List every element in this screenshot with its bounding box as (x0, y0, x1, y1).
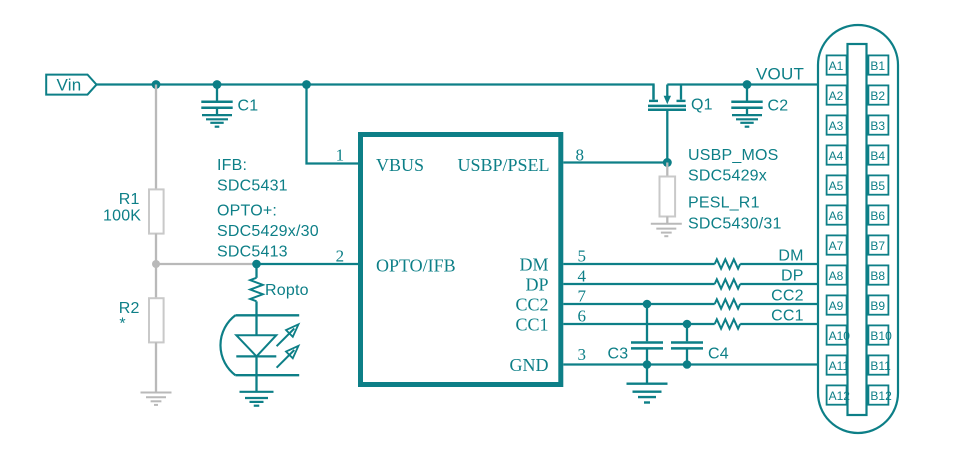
svg-text:B1: B1 (870, 59, 885, 73)
svg-text:5: 5 (578, 246, 587, 265)
svg-text:C3: C3 (608, 346, 629, 363)
svg-text:DP: DP (525, 275, 548, 295)
svg-text:USBP/PSEL: USBP/PSEL (457, 155, 549, 175)
svg-text:A1: A1 (829, 59, 844, 73)
svg-text:Vin: Vin (57, 76, 82, 95)
wire: Q1 drain to USB connector (top rail right, VOUT) (667, 83, 818, 85)
ground (below opto LED) (240, 392, 274, 406)
svg-text:USBP_MOS: USBP_MOS (688, 147, 779, 164)
svg-text:CC1: CC1 (515, 315, 548, 335)
connector pin A10 (827, 325, 851, 344)
wire: VBUS branch to pin 1 (307, 85, 359, 164)
svg-text:B3: B3 (870, 119, 885, 133)
svg-text:B12: B12 (870, 389, 892, 403)
connector pin B2 (868, 85, 888, 104)
svg-text:2: 2 (336, 247, 345, 266)
resistor in CC2 line (715, 299, 740, 308)
svg-text:B11: B11 (870, 359, 891, 373)
svg-text:DM: DM (778, 248, 803, 265)
svg-text:A11: A11 (829, 359, 850, 373)
svg-text:A12: A12 (829, 389, 851, 403)
node: junction top of C1 (213, 80, 222, 89)
connector pin A12 (827, 385, 851, 404)
svg-text:7: 7 (578, 286, 587, 305)
svg-text:CC1: CC1 (771, 308, 804, 325)
connector pin B9 (868, 295, 888, 314)
svg-text:B6: B6 (870, 209, 885, 223)
connector pin A8 (827, 265, 847, 284)
connector pin A5 (827, 175, 847, 194)
svg-text:CC2: CC2 (515, 295, 548, 315)
connector pin A6 (827, 205, 847, 224)
svg-text:A2: A2 (829, 89, 844, 103)
wire: pin 8 USBP/PSEL (563, 161, 667, 163)
connector pin B4 (868, 145, 888, 164)
connector pin B7 (868, 235, 888, 254)
connector pin B6 (868, 205, 888, 224)
wire: CC1 to connector (740, 323, 818, 325)
svg-text:8: 8 (576, 146, 585, 165)
ground (below R2, gray) (141, 393, 172, 405)
label PESL_R1 / SDC5430/31 (688, 195, 782, 233)
wire: CC1 from IC (563, 323, 714, 325)
svg-text:A7: A7 (829, 239, 844, 253)
svg-text:B4: B4 (870, 149, 885, 163)
svg-text:B10: B10 (870, 329, 892, 343)
connector J1 USB-C receptacle outline (818, 25, 898, 433)
svg-text:A9: A9 (829, 299, 844, 313)
label R2 / * (119, 300, 140, 333)
svg-text:C2: C2 (768, 98, 789, 115)
svg-text:B7: B7 (870, 239, 885, 253)
connector pin A4 (827, 145, 847, 164)
svg-text:A8: A8 (829, 269, 844, 283)
connector pin B12 (868, 385, 892, 404)
connector pin A9 (827, 295, 847, 314)
svg-text:C1: C1 (238, 98, 259, 115)
wire: C3 junction to ground (646, 365, 648, 384)
connector pin B8 (868, 265, 888, 284)
connector pin B5 (868, 175, 888, 194)
ground (below C3) (627, 384, 668, 403)
capacitor C2 with ground (731, 85, 762, 127)
wire: R2 to ground (gray) (155, 342, 157, 392)
svg-text:B5: B5 (870, 179, 885, 193)
svg-text:OPTO+:: OPTO+: (217, 203, 277, 220)
svg-text:OPTO/IFB: OPTO/IFB (376, 255, 456, 275)
resistor R1 (149, 189, 164, 233)
opto LED D1 (220, 315, 299, 392)
connector pin B11 (868, 355, 891, 374)
wire: DP to connector (740, 283, 818, 285)
svg-text:SDC5430/31: SDC5430/31 (688, 216, 782, 233)
connector pin A2 (827, 85, 847, 104)
svg-text:A4: A4 (829, 149, 844, 163)
light emission arrows (277, 329, 295, 347)
node: junction pin2 / Ropto (252, 260, 261, 269)
ground (PESL_R1, gray) (651, 224, 682, 236)
node: junction VOUT / C2 (743, 80, 752, 89)
connector pin B3 (868, 115, 888, 134)
resistor in CC1 line (715, 319, 740, 328)
connector pin B1 (868, 55, 888, 74)
node: junction CC1 / C4 (683, 320, 692, 329)
resistor PESL_R1 (660, 177, 676, 217)
svg-text:1: 1 (336, 146, 345, 165)
wire: lead to resistor PESL_R1 (666, 163, 668, 177)
connector pin A7 (827, 235, 847, 254)
svg-text:R2: R2 (119, 300, 140, 317)
node: junction gate / PESL_R1 (663, 158, 672, 167)
svg-text:A6: A6 (829, 209, 844, 223)
wire: divider junction to opto branch (gray) (156, 263, 257, 265)
wire: R1 to junction (gray) (155, 234, 157, 264)
wire: rail to R1 (gray) (155, 85, 157, 190)
capacitor C3 (631, 304, 663, 365)
connector tongue (848, 44, 867, 415)
node: junction CC2 / C3 (643, 300, 652, 309)
svg-text:SDC5431: SDC5431 (217, 178, 288, 195)
connector pin B10 (868, 325, 892, 344)
wire: junction to pin 2 OPTO/IFB (257, 263, 359, 265)
svg-text:3: 3 (578, 345, 587, 364)
connector pin A11 (827, 355, 850, 374)
svg-text:4: 4 (578, 266, 587, 285)
svg-text:6: 6 (578, 306, 587, 325)
connector pin A3 (827, 115, 847, 134)
node: junction VBUS branch (302, 80, 311, 89)
node: junction C4 / GND line (683, 360, 692, 369)
op-amp / controller IC U1 (361, 135, 561, 385)
svg-text:B9: B9 (870, 299, 885, 313)
wire: DM from IC (563, 263, 714, 265)
svg-text:DP: DP (781, 268, 804, 285)
svg-text:SDC5413: SDC5413 (217, 244, 288, 261)
node: junction top of R1 (152, 80, 161, 89)
svg-text:SDC5429x/30: SDC5429x/30 (217, 223, 319, 240)
svg-text:SDC5429x: SDC5429x (688, 168, 767, 185)
wire: Vin to Q1 source (top rail left) (97, 85, 654, 100)
net label Vin (46, 75, 96, 95)
svg-text:IFB:: IFB: (217, 157, 247, 174)
svg-text:B8: B8 (870, 269, 885, 283)
svg-text:Ropto: Ropto (265, 282, 309, 299)
svg-text:CC2: CC2 (771, 288, 804, 305)
svg-text:GND: GND (510, 355, 549, 375)
svg-text:B2: B2 (870, 89, 885, 103)
resistor Ropto (zigzag) (250, 264, 263, 315)
label R1 / 100K (103, 191, 141, 225)
resistor R2 (149, 298, 164, 342)
wire: GND pin 3 to connector (563, 363, 818, 365)
capacitor C1 with ground (201, 85, 232, 127)
note: IFB / SDC5431 (217, 157, 288, 195)
svg-text:R1: R1 (119, 191, 140, 208)
resistor in DM line (715, 259, 740, 268)
wire: CC2 from IC (563, 303, 714, 305)
capacitor C4 (671, 324, 703, 365)
svg-text:C4: C4 (708, 346, 729, 363)
wire: Q1 gate down to pin 8 net (666, 111, 668, 163)
svg-text:100K: 100K (103, 208, 141, 225)
wire: resistor to ground (666, 217, 668, 224)
connector pin A1 (827, 55, 847, 74)
transistor Q1 (pass MOSFET) (648, 85, 686, 110)
svg-text:VBUS: VBUS (376, 155, 424, 175)
svg-text:DM: DM (519, 255, 548, 275)
wire: DM to connector (740, 263, 818, 265)
label USBP_MOS / SDC5429x (688, 147, 779, 185)
svg-text:A5: A5 (829, 179, 844, 193)
node: R1/R2 divider junction (gray) (152, 260, 160, 268)
svg-text:Q1: Q1 (691, 97, 713, 114)
svg-text:*: * (119, 316, 125, 333)
wire: R1/R2 junction down to R2 (gray) (155, 264, 157, 298)
note: OPTO+ / SDC5429x/30 / SDC5413 (217, 203, 319, 261)
wire: CC2 to connector (740, 303, 818, 305)
resistor in DP line (715, 279, 740, 288)
svg-text:PESL_R1: PESL_R1 (688, 195, 760, 212)
svg-text:A10: A10 (829, 329, 851, 343)
wire: DP from IC (563, 283, 714, 285)
svg-text:VOUT: VOUT (756, 65, 804, 84)
svg-text:A3: A3 (829, 119, 844, 133)
node: junction C3 / GND line (643, 360, 652, 369)
